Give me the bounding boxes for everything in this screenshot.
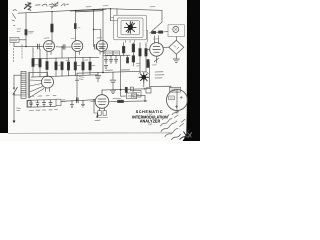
bridge rectifier D1: [163, 40, 184, 54]
bias network row: [61, 98, 100, 121]
ground: [110, 90, 116, 94]
wire to eye tube: [150, 86, 172, 87]
page bottom edge line: [8, 132, 172, 135]
node: [102, 72, 104, 74]
paper background: [0, 0, 200, 141]
ground: [70, 100, 73, 107]
resistor R23: [125, 87, 127, 92]
pencil inscription dark flourish: [180, 131, 192, 140]
resistor R3: [74, 24, 76, 29]
filter box FL1: [121, 93, 145, 99]
resistor R18: [145, 49, 147, 57]
wire lamp row: [150, 32, 169, 33]
eye tube label box: [170, 87, 181, 92]
label 33K: [79, 77, 84, 80]
wire: [61, 100, 94, 102]
resistor R17: [139, 49, 141, 57]
capacitor C11: [42, 100, 45, 107]
wire V1 to V2: [56, 46, 72, 48]
shield dashes: [13, 48, 15, 62]
power transformer T1: [21, 71, 30, 98]
capacitor C3: [95, 44, 97, 49]
capacitor C1: [37, 44, 39, 49]
wire S2 feed right: [145, 43, 147, 73]
resistor R9: [67, 58, 69, 76]
capacitor C2: [63, 45, 65, 50]
node: [61, 46, 62, 47]
resistor R6: [46, 55, 48, 77]
wires T1 to V5: [30, 71, 48, 73]
wire bus to lamp row: [152, 22, 163, 32]
switch S3 on bus: [28, 7, 31, 10]
wire grid leak: [61, 47, 63, 58]
capacitor C14: [76, 98, 78, 103]
resistor R15: [132, 56, 135, 66]
wire plate V2: [74, 11, 76, 41]
svg-text:1952: 1952: [148, 123, 152, 126]
resistor R11: [82, 57, 84, 75]
ground bus: [31, 75, 98, 77]
capacitor C7: [110, 72, 115, 90]
resistor R2: [51, 24, 54, 32]
capacitor C8: [95, 72, 100, 82]
resistor R4: [32, 48, 34, 78]
capacitor C6: [114, 56, 117, 64]
wire plate V1: [51, 12, 53, 44]
rotary switch S1: [125, 22, 137, 34]
resistor R12: [89, 57, 91, 75]
label 68K: [50, 5, 56, 8]
triode V3: [97, 41, 108, 54]
resistor R16: [126, 55, 128, 63]
wire grid V3: [93, 10, 95, 47]
S2 labels: [155, 72, 164, 78]
label 500K: [29, 32, 34, 34]
input label box: [10, 38, 19, 43]
triode V1: [44, 41, 55, 55]
bus parallel segment: [75, 11, 103, 12]
label box 250K: [114, 51, 120, 55]
wire decoupling: [75, 73, 79, 100]
audio output wire: [109, 100, 147, 103]
resistor R1: [25, 30, 27, 36]
electrolytic C12: [144, 62, 151, 93]
filter cap bank rails: [27, 95, 58, 110]
capacitor C10: [36, 100, 39, 107]
resistor R7: [55, 58, 57, 77]
value labels scatter: [17, 6, 159, 66]
ground: [104, 66, 107, 69]
resistor R5: [39, 49, 41, 77]
cathode bus: [33, 57, 99, 58]
rotary switch S2: [139, 71, 150, 82]
pilot lamp I1: [173, 26, 179, 32]
resistor R14: [132, 43, 135, 56]
resistor R20: [159, 31, 163, 33]
resistor R22: [130, 87, 133, 91]
label box OSC: [56, 99, 61, 105]
resistor R26: [118, 100, 124, 102]
label box 47K: [106, 51, 113, 55]
wire input drop: [25, 13, 27, 47]
capacitor C5: [109, 56, 112, 64]
switch S1 wafer loops: [111, 15, 148, 42]
resistor R24: [98, 111, 101, 116]
resistor R27: [147, 60, 149, 68]
eye tube V7: [167, 90, 188, 111]
resistor R19: [152, 31, 156, 33]
scanner black border right: [183, 0, 201, 141]
wire S1 feeds: [111, 9, 118, 21]
resistor R10: [74, 55, 76, 76]
B+ feed wire: [102, 9, 104, 72]
resistor R25: [103, 111, 106, 116]
rectifier tube V5: [42, 73, 54, 92]
top B+ bus wire: [18, 9, 162, 14]
pencil note top: [25, 2, 69, 8]
label 220K: [106, 69, 130, 72]
audio wire upper: [102, 89, 150, 90]
small comp bus: [103, 54, 130, 57]
capacitor C12: [49, 100, 52, 107]
output jack wire: [94, 100, 97, 117]
top right corner wire: [161, 10, 163, 22]
ground: [81, 100, 84, 107]
scanner black border left: [0, 0, 8, 133]
value labels: [30, 109, 58, 112]
svg-text:ANALYZER: ANALYZER: [140, 118, 161, 123]
wire filter junction: [121, 56, 146, 101]
input jack J1: [12, 10, 17, 26]
pilot lamp box: [168, 25, 185, 37]
wire grid V1: [14, 42, 44, 46]
resistor R8: [61, 62, 63, 76]
capacitor C4: [104, 56, 107, 64]
triode V6: [91, 90, 109, 111]
wire S2 down: [143, 83, 145, 87]
capacitor C9: [29, 100, 32, 107]
wire S2 feed left: [139, 43, 141, 73]
wire lamp to bridge: [175, 37, 177, 41]
label box: [133, 91, 141, 98]
wire below eye tube: [175, 111, 178, 114]
B+ mid bus: [77, 71, 140, 73]
rectifier tube V4: [146, 36, 163, 63]
triode V2: [71, 38, 83, 55]
title SCHEMATIC: [132, 110, 168, 126]
AC line and switch SW: [13, 75, 21, 123]
ground: [173, 54, 179, 62]
pencil inscription: [161, 111, 186, 140]
resistor R13: [122, 43, 125, 57]
